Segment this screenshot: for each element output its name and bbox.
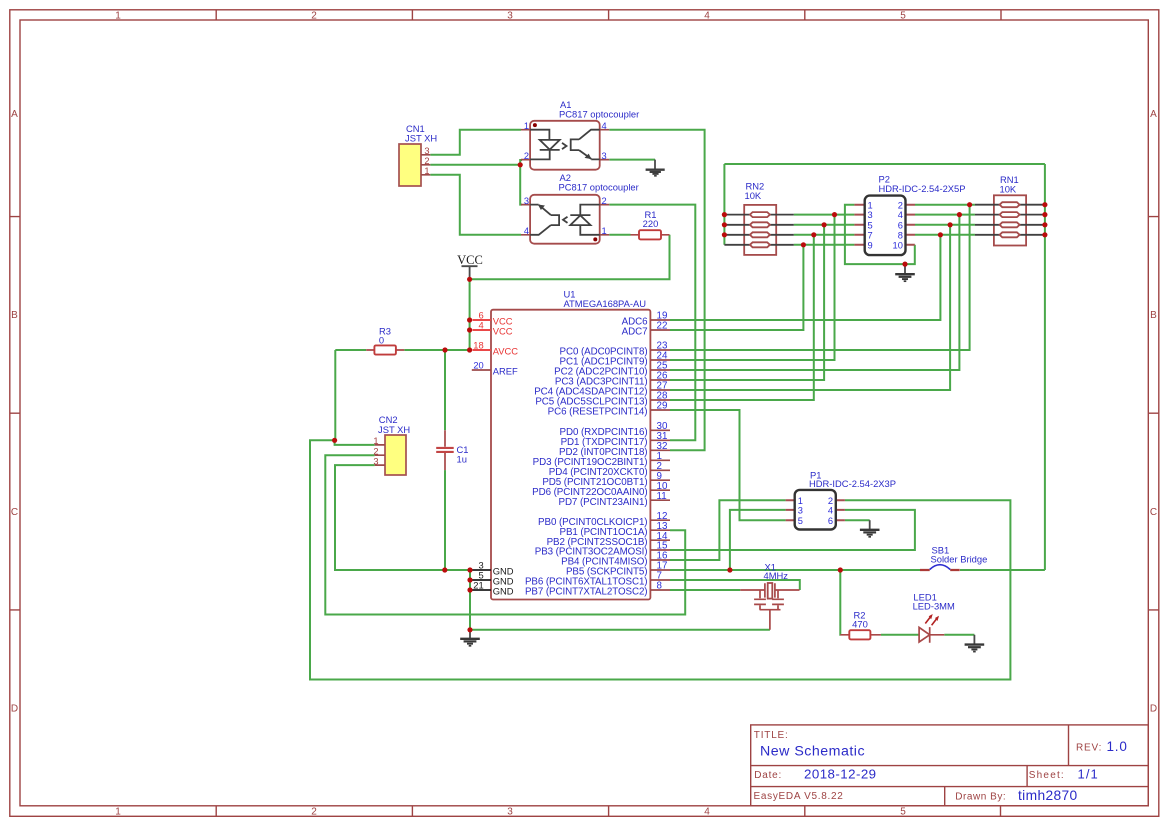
wire CN1.1 to A2.4 — [430, 175, 521, 235]
header P1 HDR-IDC-2.54-2X3P — [786, 469, 896, 529]
node CN1.2/A1.2/A2.3 — [518, 162, 523, 167]
svg-text:11: 11 — [657, 491, 667, 502]
A2 phototransistor — [530, 205, 559, 235]
node RN2 row1 — [722, 212, 727, 217]
A2 internal led — [570, 205, 599, 235]
crystal X1 4MHz with caps — [740, 561, 799, 629]
svg-text:Drawn By:: Drawn By: — [955, 792, 1006, 803]
svg-text:4: 4 — [704, 11, 710, 22]
wire SCK branch up to P1.3 — [730, 510, 786, 570]
svg-text:3: 3 — [602, 151, 607, 161]
node RN1 row1 right — [1042, 202, 1047, 207]
svg-text:2: 2 — [373, 446, 378, 456]
A1 phototransistor — [571, 130, 600, 160]
svg-text:1u: 1u — [457, 454, 467, 465]
wire LED1 to ground — [944, 634, 974, 636]
wire P2.1 to ground bus to P2.10 — [845, 205, 915, 264]
svg-text:4: 4 — [478, 320, 483, 331]
svg-text:3: 3 — [424, 146, 429, 156]
wire CN1.3 to A1.1 — [430, 130, 521, 155]
wire P2.2 junction down to U1 pin23 — [670, 205, 970, 350]
wire A2.1 to R1 — [609, 234, 630, 236]
svg-text:Sheet:: Sheet: — [1029, 770, 1065, 781]
svg-text:21: 21 — [473, 580, 483, 591]
svg-text:3: 3 — [524, 196, 529, 206]
svg-text:TITLE:: TITLE: — [754, 730, 789, 741]
resistor network RN2 10K — [724, 181, 793, 255]
wire gnd vertical at U1 left — [469, 570, 471, 630]
svg-text:1: 1 — [602, 226, 607, 236]
wire U1 pin16 to P1.1 — [670, 500, 786, 560]
header P2 HDR-IDC-2.54-2X5P — [854, 173, 965, 255]
wire AVCC rail through R3 — [335, 349, 472, 351]
wire gnd bus to crystal stem — [470, 629, 770, 631]
svg-text:4: 4 — [524, 226, 529, 236]
wire P2.8 junction down to U1 pin19 — [670, 235, 940, 320]
wire P2.5 down to U1 pin26 — [670, 225, 824, 380]
node GND pin3 — [467, 567, 472, 572]
svg-text:PC817 optocoupler: PC817 optocoupler — [559, 182, 639, 193]
node P2.6 branch — [948, 222, 953, 227]
wire U1 pin8 to crystal left — [670, 589, 740, 591]
svg-text:ADC7: ADC7 — [622, 327, 648, 338]
node P2.2 branch — [967, 202, 972, 207]
svg-text:1/1: 1/1 — [1078, 767, 1099, 782]
wire P2.9 down to U1 pin22 — [670, 245, 803, 330]
svg-text:JST XH: JST XH — [405, 133, 437, 144]
node C1 bottom — [442, 567, 447, 572]
title block — [751, 725, 1149, 806]
node RN2 row3 — [722, 232, 727, 237]
wire P1.6 to ground — [845, 519, 870, 521]
svg-text:10K: 10K — [745, 190, 762, 201]
VCC net symbol — [457, 253, 483, 280]
connector CN1 — [399, 123, 437, 186]
node VCC junction — [467, 277, 472, 282]
node VCC pin4 — [467, 327, 472, 332]
svg-text:5: 5 — [798, 516, 803, 526]
svg-text:470: 470 — [852, 618, 868, 629]
svg-text:PB7 (PCINT7XTAL2TOSC2): PB7 (PCINT7XTAL2TOSC2) — [525, 587, 648, 598]
ground (P2) — [895, 264, 915, 281]
wire pullup top rail — [724, 164, 1045, 570]
node GND pin5 — [467, 577, 472, 582]
wire U1 pin29 to P1.5 — [670, 410, 786, 520]
svg-text:3: 3 — [507, 11, 513, 22]
svg-text:PC6 (RESETPCINT14): PC6 (RESETPCINT14) — [548, 407, 648, 418]
svg-text:6: 6 — [828, 516, 833, 526]
U1 left pins — [470, 310, 518, 597]
solder bridge SB1 — [920, 544, 987, 570]
svg-text:1: 1 — [373, 436, 378, 446]
A1 internal led — [530, 130, 560, 160]
svg-text:1.0: 1.0 — [1107, 739, 1128, 754]
svg-text:10K: 10K — [1000, 183, 1017, 194]
svg-text:1: 1 — [798, 496, 803, 506]
svg-text:New Schematic: New Schematic — [760, 744, 865, 760]
svg-text:VCC: VCC — [493, 326, 513, 337]
svg-text:AREF: AREF — [493, 366, 518, 377]
ground (P1 pin6) — [860, 520, 880, 537]
node RN1 row3 right — [1042, 222, 1047, 227]
svg-text:4: 4 — [602, 121, 607, 131]
ground (LED1) — [965, 635, 985, 652]
wire P2 right pins to RN1 — [915, 205, 975, 235]
node P2.5 branch — [822, 222, 827, 227]
row ticks right — [1149, 217, 1160, 610]
wire SB1 right to pullup vertical — [960, 569, 1045, 571]
svg-text:1: 1 — [524, 121, 529, 131]
wire R1 to VCC rail — [470, 235, 670, 279]
wire CN2.1 jog — [335, 440, 375, 445]
wire R2 to LED1 — [881, 634, 919, 636]
ground (main GND) — [460, 630, 480, 646]
svg-text:2: 2 — [311, 11, 317, 22]
svg-text:HDR-IDC-2.54-2X3P: HDR-IDC-2.54-2X3P — [809, 478, 896, 489]
wire A1.3 to ground — [609, 159, 655, 161]
svg-text:8: 8 — [898, 230, 903, 240]
svg-text:GND: GND — [493, 586, 514, 597]
svg-text:AVCC: AVCC — [493, 346, 519, 357]
svg-text:1: 1 — [424, 166, 429, 176]
svg-text:9: 9 — [868, 240, 873, 250]
svg-text:8: 8 — [657, 581, 663, 592]
svg-text:PD7 (PCINT23AIN1): PD7 (PCINT23AIN1) — [558, 497, 647, 508]
svg-text:timh2870: timh2870 — [1018, 788, 1078, 803]
svg-text:3: 3 — [507, 807, 513, 818]
wire junction to A2.3 — [520, 165, 522, 205]
svg-text:3: 3 — [868, 210, 873, 220]
svg-text:2: 2 — [524, 151, 529, 161]
wire CN2.1 net to bottom rail and P1.2 — [310, 440, 1010, 679]
svg-text:C: C — [1150, 507, 1157, 518]
svg-text:3: 3 — [798, 506, 803, 516]
svg-text:D: D — [1150, 704, 1157, 715]
A2 emission arrow — [563, 217, 568, 223]
svg-text:ATMEGA168PA-AU: ATMEGA168PA-AU — [564, 298, 647, 309]
wire R3 down to CN2.1 junction — [334, 350, 336, 440]
svg-text:2: 2 — [898, 200, 903, 210]
wire P2.4 junction down to U1 pin25 — [670, 215, 959, 370]
svg-text:29: 29 — [657, 401, 668, 412]
node VCC pin6 — [467, 317, 472, 322]
svg-text:LED-3MM: LED-3MM — [913, 601, 955, 612]
capacitor C1 1u — [436, 430, 468, 470]
node RN1 row4 right — [1042, 232, 1047, 237]
svg-text:2: 2 — [424, 156, 429, 166]
A1 emission arrow — [562, 143, 567, 149]
node GND pin21 — [467, 587, 472, 592]
svg-text:A: A — [11, 109, 18, 120]
node P2.4 branch — [957, 212, 962, 217]
svg-text:2: 2 — [311, 807, 317, 818]
svg-text:2018-12-29: 2018-12-29 — [804, 767, 877, 782]
svg-text:20: 20 — [473, 361, 483, 371]
U1 right pins — [525, 311, 670, 598]
wire C1 bottom to gnd row — [444, 470, 446, 570]
svg-text:4: 4 — [898, 210, 903, 220]
column ticks top — [216, 10, 1001, 21]
column ticks bottom — [216, 806, 1000, 817]
node SCK to R2 — [838, 567, 843, 572]
resistor R1 220 — [631, 209, 670, 240]
wire RN2 rows to P2 left pins — [794, 215, 855, 245]
wire P2.3 down to U1 pin24 — [670, 215, 835, 360]
svg-text:4MHz: 4MHz — [764, 570, 789, 581]
node P2.3 branch — [832, 212, 837, 217]
resistor R2 470 — [840, 610, 881, 640]
wire CN2.3 to GND pin3 row — [335, 465, 470, 570]
svg-text:5: 5 — [868, 220, 873, 230]
node AVCC — [467, 347, 472, 352]
svg-text:EasyEDA V5.8.22: EasyEDA V5.8.22 — [754, 791, 844, 802]
node P2.8 branch — [938, 232, 943, 237]
svg-text:REV:: REV: — [1076, 743, 1102, 754]
svg-text:2: 2 — [828, 496, 833, 506]
wire CN1.2 to A1.2 junction — [430, 160, 522, 165]
connector CN2 — [373, 414, 410, 475]
wire CN2.2 to U1 pin13 — [325, 455, 685, 614]
svg-text:1: 1 — [115, 807, 121, 818]
svg-text:A: A — [1150, 109, 1157, 120]
wire A1.4 to U1 pin32 — [609, 130, 704, 451]
svg-text:Date:: Date: — [754, 770, 782, 781]
wire C1 top to AVCC rail — [444, 350, 446, 430]
LED1 LED-3MM — [913, 592, 955, 643]
optocoupler A2 — [521, 172, 639, 244]
svg-text:5: 5 — [900, 807, 906, 818]
IC U1 ATMEGA168PA-AU — [491, 289, 650, 600]
node RN1 row2 right — [1042, 212, 1047, 217]
row ticks left — [10, 217, 21, 610]
node GND bus — [467, 627, 472, 632]
svg-text:C: C — [11, 507, 18, 518]
svg-text:Solder Bridge: Solder Bridge — [931, 553, 988, 564]
wire VCC vertical to U1 power pins — [469, 279, 471, 350]
node P2 ground — [902, 262, 907, 267]
node SCK to P1.3 — [727, 567, 732, 572]
svg-text:4: 4 — [828, 506, 833, 516]
wire A2.2 to U1 pin31 — [609, 205, 695, 441]
node P2.7 branch — [811, 232, 816, 237]
node C1 top — [442, 347, 447, 352]
wire U1 pin17 SCK to SB1 — [670, 569, 921, 571]
svg-text:4: 4 — [704, 807, 710, 818]
svg-text:VCC: VCC — [457, 253, 483, 267]
svg-text:2: 2 — [602, 196, 607, 206]
svg-text:HDR-IDC-2.54-2X5P: HDR-IDC-2.54-2X5P — [879, 183, 966, 194]
svg-text:D: D — [11, 704, 18, 715]
svg-text:1: 1 — [115, 11, 121, 22]
wire P2.7 down to U1 pin28 — [670, 235, 814, 400]
svg-text:1: 1 — [868, 200, 873, 210]
svg-text:3: 3 — [373, 456, 378, 466]
svg-text:B: B — [1150, 310, 1157, 321]
svg-text:B: B — [11, 310, 18, 321]
node P2.9 branch — [801, 242, 806, 247]
svg-text:220: 220 — [643, 218, 659, 229]
wire SCK branch down to R2 — [839, 570, 841, 635]
svg-text:18: 18 — [473, 340, 483, 351]
svg-text:0: 0 — [379, 335, 384, 346]
svg-text:JST XH: JST XH — [378, 424, 410, 435]
node CN2.1 — [332, 438, 337, 443]
optocoupler A1 — [521, 99, 639, 170]
svg-text:10: 10 — [893, 240, 903, 250]
svg-text:PC817 optocoupler: PC817 optocoupler — [559, 109, 639, 120]
wire U1 pin7 to crystal right — [670, 580, 800, 590]
ground (A1 pin3) — [646, 160, 665, 176]
wire P2.6 junction down to U1 pin27 — [670, 225, 950, 390]
resistor network RN1 10K — [975, 174, 1045, 246]
node RN2 row2 — [722, 222, 727, 227]
svg-text:22: 22 — [657, 321, 668, 332]
svg-text:7: 7 — [868, 230, 873, 240]
svg-text:6: 6 — [898, 220, 903, 230]
svg-text:5: 5 — [900, 11, 906, 22]
wire U1 pin15 to P1.4 — [670, 510, 915, 550]
resistor R3 0 — [366, 326, 404, 355]
